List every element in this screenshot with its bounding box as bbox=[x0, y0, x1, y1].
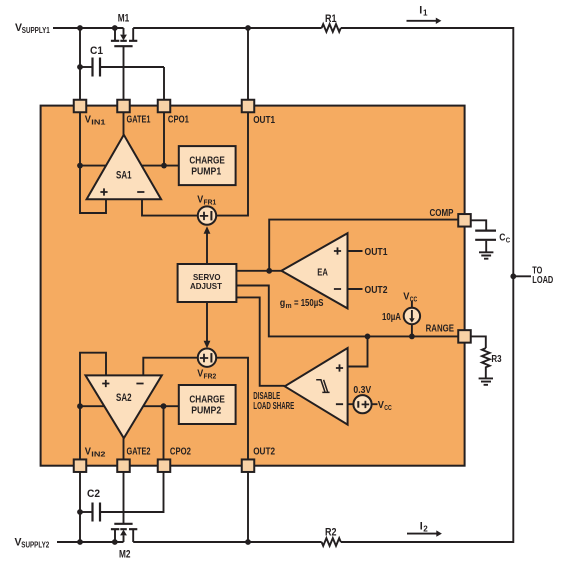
svg-text:OUT2: OUT2 bbox=[365, 285, 388, 296]
svg-text:CHARGE: CHARGE bbox=[189, 395, 225, 406]
svg-text:m: m bbox=[286, 301, 292, 310]
svg-text:EA: EA bbox=[317, 267, 328, 278]
svg-text:10µA: 10µA bbox=[382, 312, 401, 323]
svg-text:C: C bbox=[499, 232, 505, 243]
svg-text:OUT1: OUT1 bbox=[253, 115, 275, 126]
svg-text:0.3V: 0.3V bbox=[353, 385, 371, 396]
svg-text:LOAD SHARE: LOAD SHARE bbox=[253, 401, 294, 412]
svg-text:FR2: FR2 bbox=[204, 371, 217, 380]
svg-text:M1: M1 bbox=[118, 13, 130, 25]
svg-text:CC: CC bbox=[384, 403, 392, 412]
svg-text:R3: R3 bbox=[491, 354, 502, 365]
svg-text:GATE1: GATE1 bbox=[127, 115, 151, 126]
svg-text:OUT2: OUT2 bbox=[253, 447, 275, 458]
svg-text:ADJUST: ADJUST bbox=[190, 281, 223, 291]
svg-text:IN2: IN2 bbox=[91, 450, 105, 459]
svg-text:SA1: SA1 bbox=[116, 169, 132, 181]
svg-text:g: g bbox=[280, 298, 286, 309]
svg-text:R1: R1 bbox=[325, 13, 337, 25]
svg-text:= 150µS: = 150µS bbox=[294, 298, 324, 309]
svg-text:LOAD: LOAD bbox=[532, 275, 553, 286]
svg-text:PUMP2: PUMP2 bbox=[191, 405, 221, 416]
svg-text:2: 2 bbox=[423, 524, 428, 533]
svg-text:SUPPLY2: SUPPLY2 bbox=[21, 541, 49, 550]
svg-text:I: I bbox=[419, 4, 422, 16]
svg-text:RANGE: RANGE bbox=[426, 323, 455, 334]
svg-text:IN1: IN1 bbox=[91, 118, 105, 127]
svg-text:SA2: SA2 bbox=[116, 392, 132, 404]
svg-text:1: 1 bbox=[423, 9, 428, 18]
svg-text:CPO2: CPO2 bbox=[170, 447, 191, 458]
svg-text:CHARGE: CHARGE bbox=[189, 156, 225, 167]
svg-text:CC: CC bbox=[410, 294, 418, 303]
svg-text:FR1: FR1 bbox=[204, 197, 217, 206]
svg-text:SUPPLY1: SUPPLY1 bbox=[22, 26, 50, 35]
svg-text:COMP: COMP bbox=[430, 208, 454, 219]
svg-text:C1: C1 bbox=[90, 45, 103, 57]
svg-text:C: C bbox=[506, 235, 511, 244]
svg-text:OUT1: OUT1 bbox=[365, 247, 388, 258]
svg-text:CPO1: CPO1 bbox=[168, 115, 189, 126]
svg-text:R2: R2 bbox=[325, 526, 337, 538]
svg-text:M2: M2 bbox=[119, 548, 131, 560]
svg-text:C2: C2 bbox=[87, 488, 100, 500]
svg-text:PUMP1: PUMP1 bbox=[191, 166, 221, 177]
svg-text:GATE2: GATE2 bbox=[127, 447, 151, 458]
